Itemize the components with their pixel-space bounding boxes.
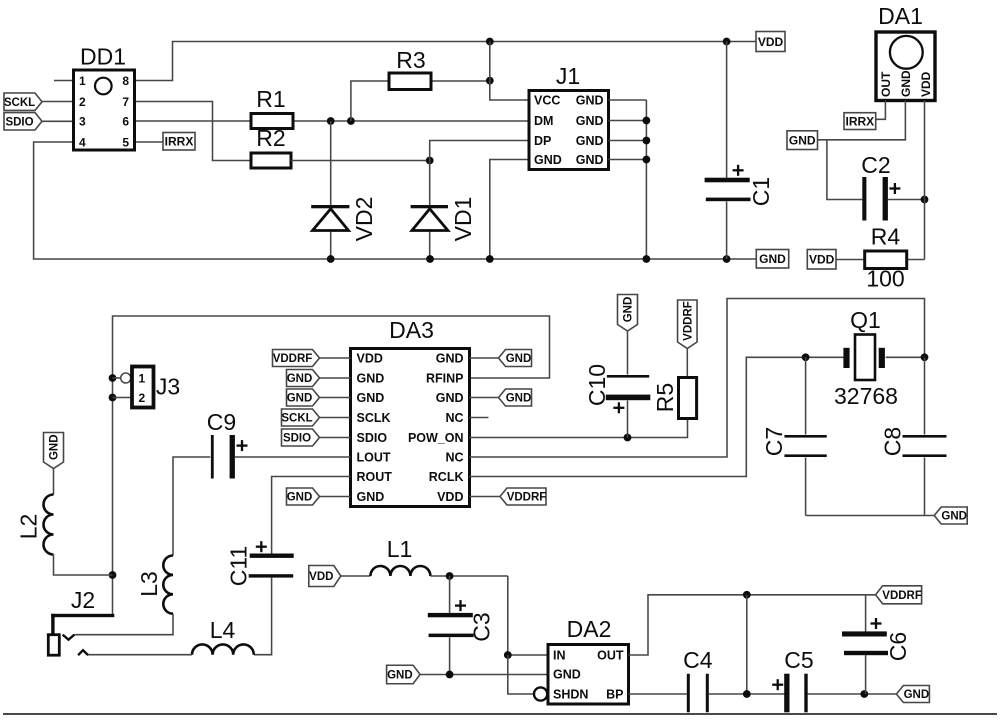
wire C2 to DA1 VDD riser: [888, 199, 925, 201]
node VDD-C1 junction: [723, 38, 731, 46]
svg-text:DA1: DA1: [878, 3, 923, 29]
svg-text:C9: C9: [207, 409, 236, 435]
ground flag GND above C10: [618, 295, 638, 332]
node C2-VDD junction: [921, 196, 929, 204]
wire SHDN tie: [508, 655, 534, 694]
svg-text:C3: C3: [469, 612, 495, 641]
svg-text:C8: C8: [880, 427, 906, 456]
net flag GND DA3 pin2: [287, 370, 320, 387]
svg-text:J3: J3: [156, 374, 180, 400]
svg-text:GND: GND: [436, 391, 464, 405]
svg-text:OUT: OUT: [597, 648, 624, 662]
IC DD1: [74, 44, 135, 151]
wire GND row to DA2: [420, 674, 548, 676]
svg-text:VCC: VCC: [534, 93, 560, 107]
figure bottom border: [3, 713, 997, 715]
crystal Q1: [834, 307, 898, 409]
svg-text:GND: GND: [576, 114, 604, 128]
net flag GND DA3 pin3: [287, 389, 320, 406]
svg-text:3: 3: [79, 115, 86, 129]
svg-text:POW_ON: POW_ON: [408, 431, 464, 445]
svg-text:L1: L1: [387, 536, 413, 562]
wire C8 leads: [924, 357, 926, 515]
svg-text:VDD: VDD: [758, 35, 784, 49]
svg-text:VD2: VD2: [351, 197, 377, 242]
ground flag GND DA2: [387, 665, 421, 684]
wire C6 leads: [865, 595, 867, 694]
wire L1 to DA2 IN: [430, 576, 548, 655]
svg-text:R2: R2: [256, 125, 285, 151]
wire L2 to node A: [54, 555, 113, 576]
svg-text:IN: IN: [553, 648, 566, 662]
svg-text:R3: R3: [396, 47, 425, 73]
wire J3 pin2: [113, 397, 133, 399]
svg-text:GND: GND: [941, 511, 967, 523]
wire LOUT to C9: [235, 456, 351, 458]
diode VD2: [311, 197, 377, 242]
svg-text:SCLK: SCLK: [357, 411, 391, 425]
node C10-POWON junction: [624, 434, 632, 442]
svg-text:2: 2: [79, 95, 86, 109]
wire DA3 right GND pins: [470, 358, 499, 398]
svg-text:GND: GND: [357, 490, 385, 504]
capacitor C9: [207, 409, 248, 479]
wire C7 leads: [806, 357, 935, 515]
svg-text:RCLK: RCLK: [429, 470, 464, 484]
wire VDDRF to R5: [686, 349, 688, 378]
svg-text:SHDN: SHDN: [553, 687, 588, 701]
ground flag GND above L2: [44, 433, 64, 469]
svg-text:GND: GND: [899, 70, 913, 97]
wire L4 to jack contact2: [88, 654, 192, 656]
net flag VDDRF output: [876, 586, 922, 604]
node J1 right GND junctions: [643, 117, 651, 164]
svg-text:100: 100: [866, 266, 904, 292]
svg-text:C4: C4: [683, 647, 713, 673]
wire NC net to crystal frame: [470, 299, 925, 458]
wire ROUT to C11: [272, 477, 351, 554]
wire BP row: [629, 693, 897, 695]
wire SDIO to DD1 pin3: [42, 120, 74, 122]
svg-text:IRRX: IRRX: [846, 114, 875, 128]
capacitor C6: [842, 618, 911, 661]
svg-text:J1: J1: [556, 63, 580, 89]
wire POW_ON row: [470, 419, 688, 438]
wire antenna net RFINP: [113, 316, 550, 614]
inductor L1: [370, 536, 430, 576]
net flag SDIO left: [4, 113, 42, 130]
capacitor C4: [683, 647, 713, 712]
wire GND branch to C2: [827, 140, 862, 200]
svg-text:DM: DM: [534, 114, 553, 128]
connector J1: [529, 63, 609, 170]
svg-text:J2: J2: [71, 587, 95, 613]
svg-text:SDIO: SDIO: [357, 431, 388, 445]
wire VDD to L1: [341, 575, 371, 577]
net flag SDIO DA3: [282, 429, 320, 446]
wire VDD to R4: [836, 259, 865, 261]
net flag SCKL left: [4, 93, 42, 110]
node C3-GND junction: [446, 671, 454, 679]
wire C1 leads: [726, 42, 728, 260]
resistor R2: [251, 125, 291, 168]
wire SCKL to DD1 pin2: [42, 101, 74, 103]
wire DA1 GND pin: [818, 101, 906, 140]
wire DA3 VDD pin: [470, 496, 501, 498]
wire crystal right lead: [886, 356, 925, 358]
svg-text:OUT: OUT: [879, 71, 893, 97]
svg-text:DD1: DD1: [80, 44, 126, 70]
wire J3 pin1: [113, 373, 131, 383]
wire DA3 left pins: [320, 358, 351, 497]
svg-text:Q1: Q1: [850, 307, 881, 333]
wire J1 GND to bus: [490, 160, 529, 260]
node VD2 top junction: [327, 117, 335, 125]
svg-text:GND: GND: [357, 391, 385, 405]
wire DD1 pin1 stub: [54, 80, 74, 82]
svg-text:7: 7: [122, 95, 129, 109]
svg-text:DP: DP: [534, 134, 551, 148]
svg-text:RFINP: RFINP: [426, 371, 464, 385]
svg-text:C5: C5: [784, 647, 813, 673]
svg-text:VDD: VDD: [919, 71, 933, 97]
svg-text:L2: L2: [16, 514, 42, 540]
capacitor C3: [428, 600, 495, 642]
node R3-VCC junction: [486, 77, 494, 85]
svg-text:SCKL: SCKL: [4, 97, 35, 109]
wire J1 right GND pins: [609, 100, 647, 259]
svg-text:GND: GND: [789, 133, 816, 147]
svg-text:DA2: DA2: [567, 616, 612, 642]
resistor R3: [389, 47, 431, 90]
svg-text:VDD: VDD: [357, 351, 383, 365]
ground flag GND BP: [896, 686, 929, 703]
wire R3 right lead: [431, 80, 490, 82]
svg-text:GND: GND: [553, 668, 581, 682]
wire OUT to BP riser: [746, 595, 748, 694]
net flag VDDRF above R5: [678, 300, 698, 349]
svg-text:GND: GND: [576, 134, 604, 148]
wire VD2 to GND bus: [330, 231, 332, 260]
svg-text:GND: GND: [506, 393, 532, 405]
svg-text:6: 6: [122, 115, 129, 129]
resistor R4: [865, 224, 907, 292]
node VDD-J1 junction: [486, 38, 494, 46]
svg-text:5: 5: [122, 135, 129, 149]
power flag VDD L1: [309, 566, 341, 587]
svg-text:SDIO: SDIO: [283, 433, 311, 445]
svg-text:ROUT: ROUT: [357, 470, 393, 484]
node VD1-R2 junction: [426, 157, 434, 165]
node crystal right junction: [921, 353, 929, 361]
net label IRRX at DA1: [844, 113, 876, 130]
ground flag GND crystal: [934, 507, 967, 524]
connector J3: [132, 367, 180, 408]
resistor R5: [652, 378, 697, 419]
capacitor C8: [880, 427, 947, 457]
svg-text:DA3: DA3: [389, 317, 434, 343]
IC DA1: [876, 3, 935, 101]
capacitor C5: [772, 647, 814, 712]
IC DA2: [534, 616, 629, 704]
svg-text:GND: GND: [287, 393, 313, 405]
node crystal left junction: [802, 353, 810, 361]
wire C10 leads: [627, 331, 629, 438]
wire C3 leads: [449, 576, 451, 674]
svg-text:L3: L3: [136, 571, 162, 597]
svg-text:VDDRF: VDDRF: [882, 590, 922, 602]
svg-text:GND: GND: [506, 353, 532, 365]
node IN junction: [504, 651, 512, 659]
svg-text:VDDRF: VDDRF: [273, 353, 313, 365]
wire DA1 OUT to IRRX: [876, 101, 886, 120]
wire R3 left lead: [351, 81, 389, 121]
net flag GND DA3 right3: [499, 389, 532, 406]
svg-text:BP: BP: [606, 687, 623, 701]
net label IRRX at DD1: [163, 133, 195, 151]
wire R2 to VD1 node: [291, 160, 430, 162]
svg-text:R4: R4: [871, 224, 901, 250]
svg-text:IRRX: IRRX: [165, 135, 194, 149]
wire J1 DP to VD1: [430, 141, 529, 206]
svg-text:GND: GND: [576, 153, 604, 167]
node OUT riser junction: [743, 591, 751, 599]
net flag VDDRF DA3 VDD: [273, 350, 320, 367]
ground GND label bus: [756, 250, 788, 269]
net flag GND DA3 pin8: [287, 488, 320, 505]
inductor L3: [136, 556, 173, 614]
connector J2 audio jack: [48, 587, 114, 655]
capacitor C1: [705, 165, 774, 206]
node A jack-L2 junction: [109, 571, 117, 579]
svg-text:SCKL: SCKL: [281, 413, 312, 425]
wire DD1 pin6 to R1: [135, 120, 252, 122]
svg-text:GND: GND: [759, 252, 786, 266]
svg-text:NC: NC: [445, 450, 463, 464]
wire VD1 to GND bus: [429, 231, 431, 260]
inductor L2: [16, 495, 54, 555]
svg-text:32768: 32768: [834, 383, 898, 409]
svg-text:VDDRF: VDDRF: [507, 492, 547, 504]
net flag SCKL DA3: [281, 409, 319, 426]
wire L3 to jack contact: [74, 614, 173, 635]
capacitor C7: [761, 427, 827, 457]
svg-text:4: 4: [79, 135, 86, 149]
net flag VDDRF DA3 right: [500, 488, 546, 505]
svg-text:C11: C11: [225, 546, 251, 587]
wire VD2 cathode riser: [330, 121, 332, 205]
svg-text:L4: L4: [210, 617, 236, 643]
svg-text:C1: C1: [748, 177, 774, 206]
node BP row junctions: [743, 690, 868, 698]
wire DD1 pin4 to GND bus: [34, 142, 756, 259]
wire DD1 pin7 to R2: [135, 102, 252, 161]
svg-text:GND: GND: [357, 371, 385, 385]
svg-text:VDD: VDD: [809, 253, 835, 267]
svg-text:GND: GND: [49, 434, 61, 460]
svg-text:1: 1: [139, 371, 146, 385]
svg-text:GND: GND: [904, 689, 930, 701]
capacitor C2: [861, 152, 900, 221]
svg-text:GND: GND: [623, 297, 635, 323]
node L1-C3 junction: [446, 572, 454, 580]
resistor R1: [251, 86, 293, 129]
svg-text:R5: R5: [652, 383, 678, 412]
wire R1 to J1 DM: [293, 120, 529, 122]
IC DA3: [351, 317, 470, 507]
svg-text:2: 2: [139, 391, 146, 405]
svg-text:GND: GND: [287, 492, 313, 504]
node R3 bottom junction: [347, 117, 355, 125]
power VDD label top: [756, 32, 785, 52]
svg-text:GND: GND: [534, 153, 562, 167]
svg-text:C10: C10: [584, 364, 610, 406]
svg-text:GND: GND: [387, 670, 413, 682]
svg-text:VDD: VDD: [437, 490, 463, 504]
wire GND to L2: [53, 469, 55, 495]
wire DD1 pin5 to IRRX: [135, 141, 164, 143]
svg-text:C2: C2: [861, 152, 890, 178]
wire DA2 OUT row: [629, 595, 876, 655]
wire DA1 VDD riser: [907, 101, 925, 260]
wire DD1 pin8 to VDD label: [135, 42, 757, 81]
diode VD1: [411, 197, 476, 242]
svg-text:VDDRF: VDDRF: [682, 301, 694, 341]
svg-text:VD1: VD1: [450, 197, 476, 242]
svg-text:R1: R1: [256, 86, 285, 112]
svg-text:8: 8: [122, 74, 129, 88]
wire VDD riser to J1 VCC: [490, 42, 529, 101]
svg-text:GND: GND: [436, 351, 464, 365]
svg-text:GND: GND: [287, 373, 313, 385]
svg-text:NC: NC: [445, 411, 463, 425]
node J3 junctions: [109, 374, 117, 401]
svg-text:LOUT: LOUT: [357, 450, 391, 464]
svg-text:1: 1: [79, 74, 86, 88]
svg-text:GND: GND: [576, 93, 604, 107]
svg-text:VDD: VDD: [309, 571, 333, 583]
net flag GND DA3 right1: [499, 350, 532, 367]
wire RCLK to crystal: [470, 357, 844, 476]
svg-text:SDIO: SDIO: [5, 116, 33, 128]
svg-text:C7: C7: [761, 427, 787, 456]
svg-text:C6: C6: [885, 632, 911, 661]
ground GND label DA1: [787, 131, 818, 150]
power VDD label R4: [807, 250, 836, 270]
wire C11 to L4: [254, 578, 272, 655]
capacitor C10: [584, 364, 650, 413]
wire C9 to L3: [173, 457, 210, 556]
wire NC stub: [470, 417, 489, 419]
inductor L4: [192, 617, 254, 655]
node GND bus junctions: [327, 255, 731, 263]
capacitor C11: [225, 541, 293, 586]
